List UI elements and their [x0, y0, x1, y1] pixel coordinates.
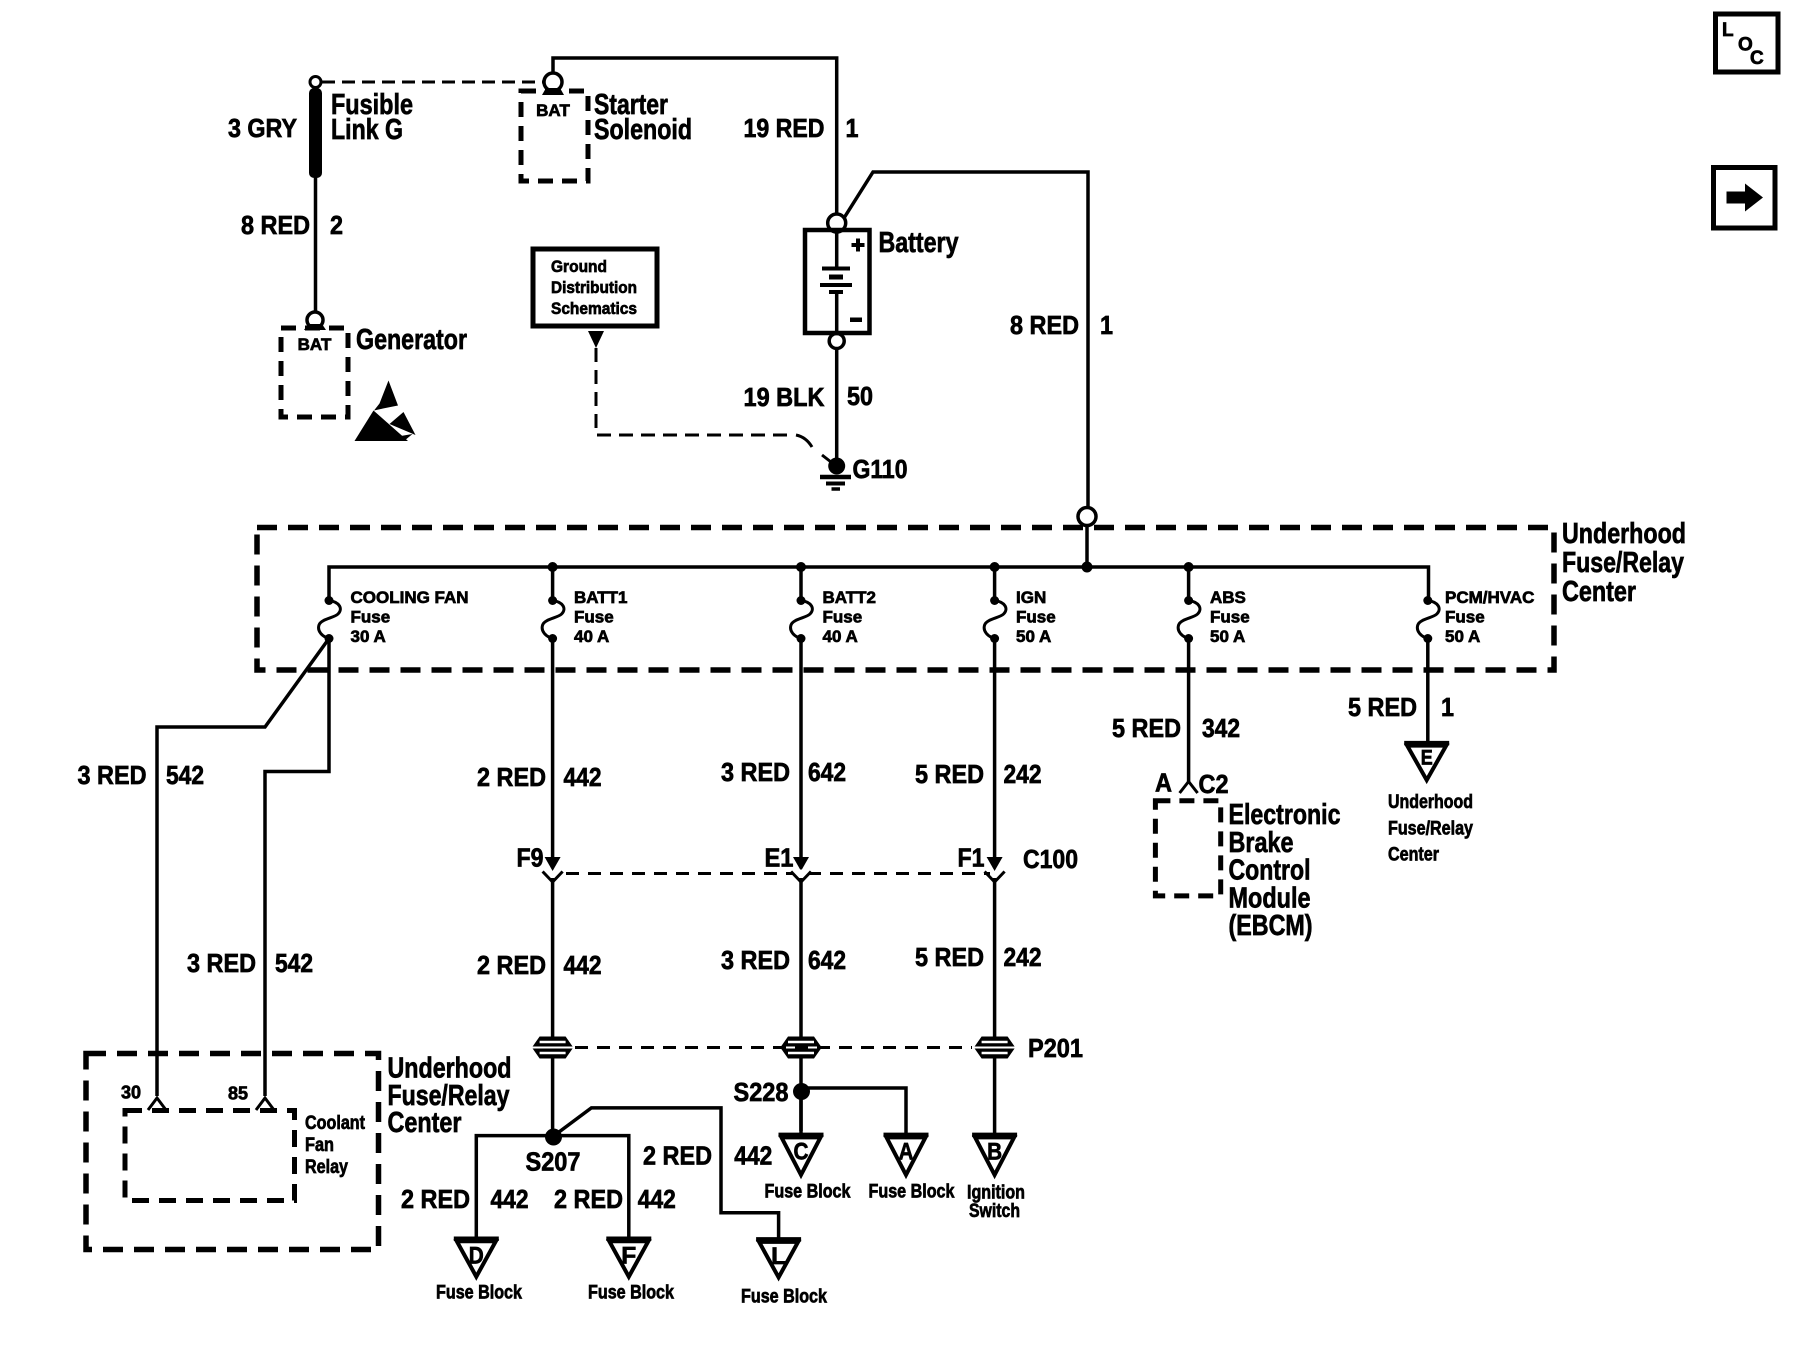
- svg-text:642: 642: [808, 757, 846, 787]
- svg-text:442: 442: [491, 1184, 529, 1214]
- svg-text:Link G: Link G: [331, 114, 403, 146]
- svg-text:Fuse: Fuse: [823, 608, 863, 627]
- svg-text:642: 642: [808, 945, 846, 975]
- svg-text:G110: G110: [853, 454, 908, 484]
- svg-text:442: 442: [638, 1184, 676, 1214]
- svg-text:E1: E1: [765, 843, 794, 873]
- svg-text:BATT1: BATT1: [574, 588, 628, 607]
- svg-text:442: 442: [734, 1141, 772, 1171]
- svg-text:B: B: [987, 1139, 1002, 1166]
- svg-text:C2: C2: [1199, 769, 1229, 799]
- svg-text:1: 1: [846, 113, 859, 143]
- svg-text:442: 442: [564, 950, 602, 980]
- svg-text:Fuse: Fuse: [351, 608, 391, 627]
- svg-text:19 RED: 19 RED: [744, 113, 825, 143]
- svg-text:Generator: Generator: [356, 324, 467, 356]
- svg-text:2 RED: 2 RED: [643, 1141, 712, 1171]
- svg-text:Center: Center: [388, 1107, 462, 1139]
- svg-text:Fuse: Fuse: [574, 608, 614, 627]
- svg-text:2 RED: 2 RED: [477, 950, 546, 980]
- svg-text:242: 242: [1004, 942, 1042, 972]
- svg-text:Fuse: Fuse: [1016, 608, 1056, 627]
- svg-text:Center: Center: [1388, 845, 1440, 866]
- svg-text:50 A: 50 A: [1016, 627, 1051, 646]
- svg-text:S207: S207: [526, 1147, 581, 1177]
- svg-text:30: 30: [121, 1083, 141, 1103]
- svg-text:3 RED: 3 RED: [187, 948, 256, 978]
- svg-text:BATT2: BATT2: [823, 588, 877, 607]
- svg-text:50 A: 50 A: [1210, 627, 1245, 646]
- svg-text:Switch: Switch: [969, 1201, 1020, 1222]
- svg-text:C: C: [1750, 48, 1764, 69]
- svg-text:2 RED: 2 RED: [477, 762, 546, 792]
- svg-text:19 BLK: 19 BLK: [744, 382, 825, 412]
- svg-text:L: L: [771, 1243, 786, 1270]
- svg-text:8 RED: 8 RED: [1010, 310, 1079, 340]
- svg-text:40 A: 40 A: [574, 627, 609, 646]
- svg-text:442: 442: [564, 762, 602, 792]
- svg-text:C: C: [794, 1139, 809, 1166]
- svg-text:Schematics: Schematics: [551, 299, 637, 318]
- svg-text:Underhood: Underhood: [1388, 792, 1473, 813]
- svg-text:1: 1: [1441, 692, 1454, 722]
- svg-text:C100: C100: [1023, 844, 1078, 874]
- svg-text:30 A: 30 A: [351, 627, 386, 646]
- svg-text:40 A: 40 A: [823, 627, 858, 646]
- svg-text:Distribution: Distribution: [551, 278, 637, 297]
- svg-text:542: 542: [166, 760, 204, 790]
- svg-text:Fuse: Fuse: [1210, 608, 1250, 627]
- svg-text:8 RED: 8 RED: [241, 210, 310, 240]
- svg-text:Underhood: Underhood: [1562, 518, 1686, 550]
- svg-text:BAT: BAT: [298, 335, 332, 354]
- svg-text:5 RED: 5 RED: [915, 759, 984, 789]
- svg-text:S228: S228: [734, 1077, 789, 1107]
- svg-text:F: F: [621, 1243, 636, 1270]
- svg-text:Solenoid: Solenoid: [594, 114, 692, 146]
- svg-text:342: 342: [1202, 713, 1240, 743]
- svg-text:P201: P201: [1028, 1033, 1083, 1063]
- svg-text:Relay: Relay: [305, 1157, 348, 1178]
- svg-text:Fuse/Relay: Fuse/Relay: [1562, 547, 1684, 579]
- svg-text:542: 542: [275, 948, 313, 978]
- svg-text:IGN: IGN: [1016, 588, 1046, 607]
- svg-text:5 RED: 5 RED: [1348, 692, 1417, 722]
- svg-text:ABS: ABS: [1210, 588, 1246, 607]
- svg-text:Fuse Block: Fuse Block: [436, 1283, 522, 1304]
- svg-text:50: 50: [847, 381, 873, 411]
- svg-text:Ground: Ground: [551, 257, 607, 276]
- svg-text:BAT: BAT: [536, 101, 570, 120]
- svg-text:(EBCM): (EBCM): [1229, 910, 1313, 942]
- svg-text:F9: F9: [517, 843, 544, 873]
- svg-text:Fuse Block: Fuse Block: [741, 1287, 827, 1308]
- svg-text:D: D: [469, 1243, 484, 1270]
- svg-text:242: 242: [1004, 759, 1042, 789]
- svg-text:Battery: Battery: [879, 227, 959, 259]
- svg-text:Coolant: Coolant: [305, 1113, 366, 1134]
- svg-text:5 RED: 5 RED: [915, 942, 984, 972]
- svg-text:E: E: [1421, 747, 1433, 770]
- svg-text:2 RED: 2 RED: [401, 1184, 470, 1214]
- svg-text:Fan: Fan: [305, 1135, 334, 1156]
- svg-text:A: A: [899, 1139, 914, 1166]
- svg-text:Fuse Block: Fuse Block: [869, 1182, 955, 1203]
- svg-text:COOLING FAN: COOLING FAN: [351, 588, 469, 607]
- svg-text:Fuse Block: Fuse Block: [588, 1283, 674, 1304]
- svg-text:1: 1: [1100, 310, 1113, 340]
- svg-text:F1: F1: [958, 843, 985, 873]
- svg-text:50 A: 50 A: [1445, 627, 1480, 646]
- svg-text:2 RED: 2 RED: [554, 1184, 623, 1214]
- svg-text:85: 85: [228, 1084, 248, 1104]
- svg-text:Fuse: Fuse: [1445, 608, 1485, 627]
- svg-text:L: L: [1722, 20, 1734, 41]
- svg-text:Fuse Block: Fuse Block: [765, 1182, 851, 1203]
- svg-text:3 GRY: 3 GRY: [228, 113, 297, 143]
- svg-text:Fuse/Relay: Fuse/Relay: [1388, 819, 1473, 840]
- svg-text:A: A: [1155, 768, 1172, 798]
- svg-text:Center: Center: [1562, 576, 1636, 608]
- svg-text:3 RED: 3 RED: [721, 757, 790, 787]
- svg-text:2: 2: [330, 210, 343, 240]
- svg-text:5 RED: 5 RED: [1112, 713, 1181, 743]
- svg-text:PCM/HVAC: PCM/HVAC: [1445, 588, 1534, 607]
- svg-text:3 RED: 3 RED: [721, 945, 790, 975]
- svg-text:3 RED: 3 RED: [78, 760, 147, 790]
